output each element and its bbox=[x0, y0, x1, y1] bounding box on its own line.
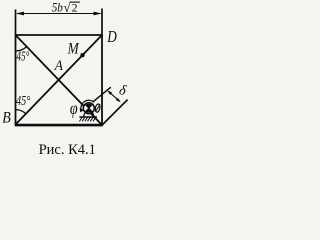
svg-text:A: A bbox=[54, 58, 64, 74]
svg-text:φ: φ bbox=[70, 100, 78, 119]
delta dimension double arrow bbox=[107, 90, 120, 102]
svg-text:45°: 45° bbox=[16, 50, 29, 64]
point M dot bbox=[80, 53, 84, 57]
label theta (oval with slash) bbox=[95, 104, 101, 113]
label 5b sqrt2 bbox=[52, 0, 80, 15]
svg-text:2: 2 bbox=[72, 2, 78, 14]
square plate: bottom side bbox=[15, 124, 103, 127]
diagonal B to D bbox=[16, 35, 103, 125]
ray from bottom-right corner up-right bbox=[102, 100, 127, 125]
svg-text:5b: 5b bbox=[52, 0, 63, 15]
dimension line 5b sqrt2 bbox=[16, 12, 102, 16]
ray from pivot O up-right bbox=[93, 87, 111, 102]
svg-text:45°: 45° bbox=[16, 92, 30, 108]
square plate: right side bbox=[101, 35, 103, 125]
square plate: top side bbox=[16, 34, 103, 36]
diagonal from top-left corner to bottom-right corner bbox=[16, 35, 103, 125]
svg-text:Рис. К4.1: Рис. К4.1 bbox=[39, 142, 96, 158]
svg-text:B: B bbox=[2, 110, 11, 127]
svg-text:D: D bbox=[106, 29, 117, 47]
pivot filled bottom sector bbox=[86, 108, 93, 113]
pivot support legs bbox=[83, 112, 85, 117]
pivot O: fixed axis circle bbox=[83, 103, 94, 114]
wire left extension line bbox=[15, 10, 17, 36]
pivot cross spokes bbox=[85, 104, 93, 112]
phi rotation arc with arrowhead bbox=[81, 100, 94, 109]
wire right extension line bbox=[101, 9, 103, 36]
svg-text:M: M bbox=[67, 41, 80, 58]
pivot filled top sector bbox=[86, 104, 93, 109]
45 deg arc at corner B bbox=[16, 110, 26, 114]
ground line bbox=[79, 116, 97, 118]
ground hatching bbox=[79, 117, 95, 121]
45 deg arc at top-left corner bbox=[16, 47, 27, 52]
square plate: left side bbox=[15, 35, 17, 125]
